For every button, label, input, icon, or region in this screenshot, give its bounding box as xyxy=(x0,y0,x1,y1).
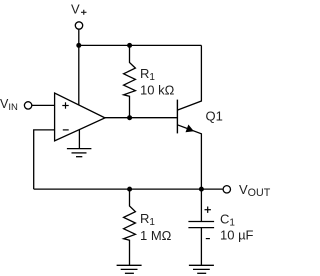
junction bottom rail / emitter C1 xyxy=(199,187,204,192)
junction at V+ rail xyxy=(76,43,81,48)
wire op-amp output to Q1 base xyxy=(105,117,177,119)
svg-text:Q1: Q1 xyxy=(206,108,223,123)
label R1 (1M) xyxy=(140,211,155,228)
capacitor C1 plates xyxy=(188,222,214,228)
junction bottom rail / R1 1M xyxy=(127,187,132,192)
resistor R1 10k xyxy=(124,45,136,117)
wire emitter to C1 xyxy=(200,189,202,221)
op-amp plus input sign xyxy=(62,102,68,108)
value 1 MOhm xyxy=(140,228,172,243)
svg-text:10 µF: 10 µF xyxy=(220,227,254,242)
wire op-amp ground pin xyxy=(78,130,80,149)
wire op-amp minus input feedback xyxy=(34,130,55,189)
value 10 kOhm xyxy=(140,82,175,97)
wire bottom rail xyxy=(34,188,223,190)
op-amp U1 triangle xyxy=(55,93,105,141)
wire C1 to ground xyxy=(200,228,202,266)
junction output / R1 bottom xyxy=(127,115,132,120)
ground R1 1M xyxy=(117,265,142,273)
transistor Q1 base bar xyxy=(176,100,178,134)
svg-text:V: V xyxy=(71,2,80,17)
node VOUT terminal xyxy=(223,186,230,193)
wire VIN to op-amp plus input xyxy=(32,104,55,106)
op-amp minus input sign xyxy=(63,129,69,131)
node V+ terminal xyxy=(75,22,82,29)
capacitor C1 plus sign xyxy=(205,207,211,213)
svg-text:10 kΩ: 10 kΩ xyxy=(140,82,175,97)
capacitor C1 minus sign xyxy=(206,238,210,240)
node VIN label xyxy=(0,97,18,113)
ground C1 xyxy=(189,265,214,273)
label C1 xyxy=(220,212,235,229)
wire V+ terminal to top rail xyxy=(78,29,80,45)
node V+ label xyxy=(71,2,87,17)
wire op-amp V+ supply pin xyxy=(78,45,80,105)
value 10 uF xyxy=(220,227,254,242)
junction top rail / R1 xyxy=(127,43,132,48)
label Q1 xyxy=(206,108,223,123)
svg-text:1 MΩ: 1 MΩ xyxy=(140,228,172,243)
node VIN terminal xyxy=(24,102,31,109)
ground op-amp xyxy=(67,149,92,157)
node VOUT label xyxy=(239,182,271,199)
wire top rail xyxy=(79,44,202,46)
transistor Q1 emitter xyxy=(177,125,201,190)
resistor R1 1M xyxy=(124,189,136,265)
label R1 (10k) xyxy=(140,66,155,83)
transistor Q1 collector xyxy=(177,45,201,110)
